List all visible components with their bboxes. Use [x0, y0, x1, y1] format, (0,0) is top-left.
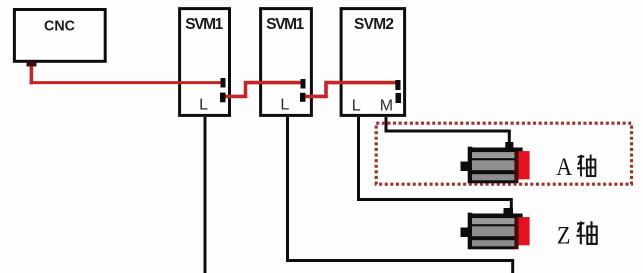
- svg-text:A: A: [556, 154, 572, 182]
- svg-text:SVM1: SVM1: [185, 16, 223, 33]
- svg-text:SVM1: SVM1: [266, 16, 304, 33]
- svg-text:SVM2: SVM2: [354, 16, 394, 33]
- svg-text:CNC: CNC: [44, 18, 75, 34]
- svg-text:Z: Z: [557, 222, 570, 250]
- svg-text:L: L: [280, 97, 289, 114]
- svg-text:M: M: [380, 98, 393, 115]
- svg-text:L: L: [352, 98, 361, 115]
- svg-text:L: L: [199, 97, 208, 114]
